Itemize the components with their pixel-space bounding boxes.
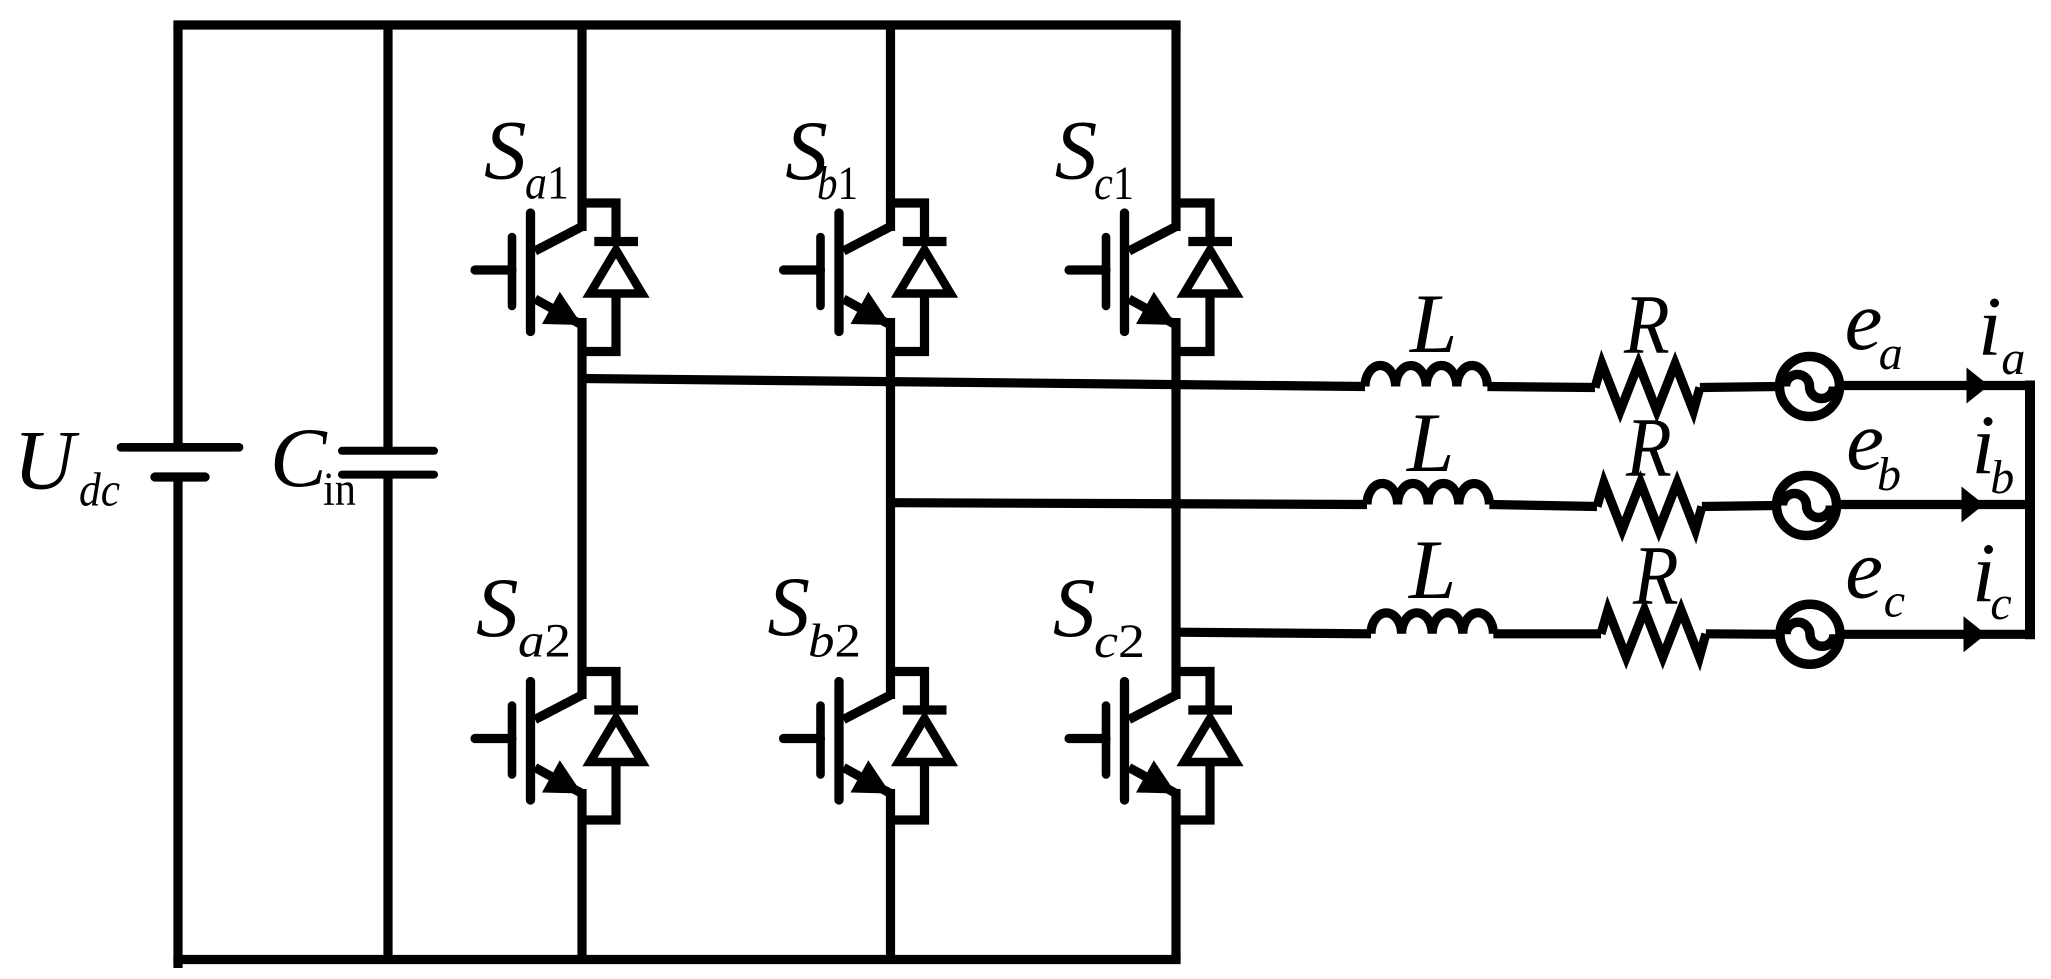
battery U_dc negative lead	[173, 477, 182, 968]
svg-text:R: R	[1632, 530, 1679, 623]
arrowhead: current i_c direction	[1964, 616, 1987, 652]
svg-text:L: L	[1408, 523, 1456, 617]
transistor S_c2 (IGBT)	[1069, 682, 1176, 801]
wire: leg c lower emitter segment	[1171, 789, 1180, 960]
wire: bottom DC bus rail	[178, 955, 1176, 964]
wire: phase a between inductor and resistor	[1487, 387, 1595, 388]
svg-text:e: e	[1845, 274, 1883, 368]
battery U_dc short (negative) plate	[155, 472, 205, 481]
svg-text:c: c	[1884, 575, 1905, 628]
wire: leg c mid segment (S_c1 emitter to S_c2 collector, phase c node)	[1171, 318, 1180, 699]
AC source e_c sine symbol	[1786, 622, 1834, 646]
diode: antiparallel diode of S_b1	[891, 203, 951, 352]
wire: leg c upper collector segment	[1171, 25, 1180, 231]
diode: antiparallel diode of S_c1	[1176, 203, 1236, 352]
wire: phase b between inductor and resistor	[1489, 505, 1597, 507]
wire: leg a lower emitter segment	[577, 789, 586, 960]
wire: phase c from source e_c to right bus	[1840, 630, 2030, 639]
arrowhead: current i_b direction	[1962, 487, 1985, 523]
arrowhead: current i_a direction	[1967, 368, 1990, 404]
svg-text:c: c	[1990, 577, 2011, 630]
svg-text:S: S	[1055, 104, 1098, 198]
wire: leg a mid segment (S_a1 emitter to S_a2 collector, phase a node)	[577, 318, 586, 699]
svg-text:R: R	[1623, 279, 1670, 372]
svg-text:C: C	[270, 411, 328, 505]
capacitor C_in top lead	[383, 25, 392, 451]
AC source e_c circle	[1780, 604, 1840, 664]
svg-text:in: in	[323, 463, 356, 516]
wire: leg b lower emitter segment	[886, 789, 895, 960]
transistor S_b1 (IGBT)	[784, 213, 891, 332]
svg-text:S: S	[768, 560, 811, 654]
svg-text:U: U	[14, 414, 80, 508]
svg-text:S: S	[476, 561, 519, 655]
capacitor C_in bottom lead	[383, 475, 392, 960]
svg-text:i: i	[1978, 280, 2002, 374]
svg-text:c1: c1	[1094, 157, 1134, 210]
resistor R (phase c)	[1601, 610, 1706, 657]
svg-text:a2: a2	[518, 615, 571, 668]
diode: antiparallel diode of S_a1	[582, 203, 642, 352]
AC source e_a sine symbol	[1786, 375, 1834, 399]
AC source e_a circle	[1780, 357, 1840, 417]
resistor R (phase b)	[1597, 483, 1702, 530]
svg-text:c2: c2	[1094, 615, 1145, 668]
wire: right vertical bus joining the three phases	[2025, 386, 2035, 635]
wire: leg b mid segment (S_b1 emitter to S_b2 collector, phase b node)	[886, 318, 895, 699]
wire: phase c between resistor and source e_c	[1706, 629, 1780, 639]
AC source e_b circle	[1777, 476, 1837, 536]
wire: phase b from source e_b to right bus	[1837, 500, 2031, 509]
wire: phase a output from leg a to inductor	[582, 379, 1365, 387]
wire: leg a upper collector segment	[577, 25, 586, 231]
transistor S_a2 (IGBT)	[475, 682, 582, 801]
diode: antiparallel diode of S_a2	[582, 672, 642, 821]
AC source e_b sine symbol	[1783, 494, 1831, 518]
svg-text:R: R	[1625, 402, 1672, 495]
svg-text:a1: a1	[525, 157, 569, 210]
wire: phase b output from leg b to inductor	[891, 503, 1368, 505]
svg-text:S: S	[1053, 561, 1096, 655]
svg-text:L: L	[1409, 277, 1457, 371]
wire: top DC bus rail	[178, 20, 1176, 29]
diode: antiparallel diode of S_b2	[891, 672, 951, 821]
transistor S_b2 (IGBT)	[784, 682, 891, 801]
battery U_dc positive lead	[173, 25, 182, 447]
svg-text:a: a	[1879, 327, 1903, 380]
wire: phase b between resistor and source e_b	[1702, 506, 1777, 507]
svg-text:b2: b2	[808, 614, 861, 667]
transistor S_a1 (IGBT)	[475, 213, 582, 332]
svg-text:b: b	[1877, 448, 1901, 501]
wire: leg b upper collector segment	[886, 25, 895, 231]
svg-text:a: a	[2001, 332, 2025, 385]
diode: antiparallel diode of S_c2	[1176, 672, 1236, 821]
svg-text:b: b	[1990, 451, 2014, 504]
wire: phase c output from leg c to inductor	[1176, 632, 1371, 634]
svg-text:dc: dc	[79, 464, 120, 517]
svg-text:e: e	[1845, 523, 1883, 617]
inductor L (phase b)	[1367, 484, 1489, 505]
svg-text:b1: b1	[817, 157, 858, 210]
wire: phase a from source e_a to right bus	[1840, 381, 2031, 390]
wire: phase c between inductor and resistor	[1493, 629, 1601, 638]
capacitor C_in top plate	[342, 447, 434, 455]
inductor L (phase c)	[1371, 613, 1493, 634]
wire: phase a between resistor and source e_a	[1700, 387, 1780, 388]
svg-text:L: L	[1406, 396, 1454, 490]
battery U_dc long (positive) plate	[121, 443, 239, 452]
resistor R (phase a)	[1595, 364, 1700, 411]
transistor S_c1 (IGBT)	[1069, 213, 1176, 332]
inductor L (phase a)	[1365, 366, 1487, 387]
svg-text:S: S	[484, 103, 527, 197]
capacitor C_in bottom plate	[342, 471, 434, 479]
